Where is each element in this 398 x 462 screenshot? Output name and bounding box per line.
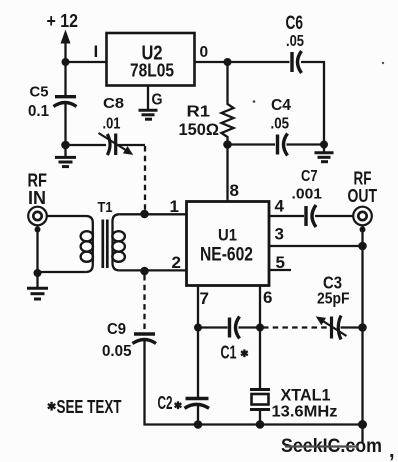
- node C junction (227,62): [224, 58, 232, 66]
- node N junction (260,424.5): [256, 420, 265, 429]
- svg-text:2: 2: [172, 253, 181, 272]
- svg-text:.01: .01: [103, 116, 121, 133]
- ground below node D: [323, 145, 325, 153]
- IC U1 NE-602 box: [187, 202, 270, 286]
- RF IN connector: [28, 207, 47, 226]
- ground below node F: [36, 273, 38, 288]
- pin 6 label: [263, 288, 272, 307]
- pin 5 stub: [269, 269, 291, 271]
- wire C5 branch down: [64, 62, 66, 95]
- wire C8 to corner: [119, 144, 146, 146]
- node H junction (144.5,271): [140, 267, 149, 276]
- pin 4 wire U1 to C7: [269, 215, 304, 217]
- wire C5 to lower junction: [64, 103, 66, 146]
- svg-text:8: 8: [230, 181, 239, 200]
- capacitor C7: [304, 206, 307, 226]
- pin 7 wire down: [197, 286, 199, 398]
- node F junction (37.5,273): [34, 269, 42, 277]
- svg-text:1: 1: [170, 197, 179, 216]
- wire C9 down to bottom rail: [145, 340, 199, 425]
- svg-text:C5: C5: [30, 84, 49, 101]
- svg-text:C4: C4: [271, 97, 291, 114]
- wire RF OUT down right rail: [361, 226, 363, 443]
- capacitor C1: [228, 318, 231, 338]
- node I junction (362.5,246): [358, 242, 367, 251]
- bottom rail wire: [198, 423, 363, 425]
- svg-text:T1: T1: [98, 199, 113, 216]
- wire C2 to bottom rail: [197, 405, 199, 425]
- pin 3 label: [275, 225, 284, 244]
- svg-text:13.6MHz: 13.6MHz: [272, 404, 338, 421]
- svg-text:5: 5: [276, 253, 285, 272]
- pin 1 label: [170, 197, 179, 216]
- svg-text:.001: .001: [292, 186, 323, 203]
- wire C6 to corner and down: [301, 62, 324, 145]
- svg-text:NE-602: NE-602: [200, 245, 253, 266]
- dashed wire node K to C3: [263, 326, 329, 328]
- node G junction (144.5,214): [140, 210, 149, 219]
- svg-text:OUT: OUT: [348, 186, 378, 206]
- wire node E to C4: [228, 143, 276, 145]
- connector pin dot: [35, 227, 41, 233]
- wire connector down to node F: [36, 226, 38, 274]
- svg-text:4: 4: [275, 197, 285, 216]
- svg-text:.05: .05: [271, 116, 290, 133]
- wire C1 to node K: [239, 326, 261, 328]
- +12 supply label: [47, 11, 79, 31]
- RF IN label: [28, 171, 48, 209]
- node K junction (260,327.5): [256, 324, 264, 332]
- svg-text:IN: IN: [28, 188, 46, 208]
- wire T1 secondary bottom to pin 2: [119, 269, 186, 271]
- pin 5 label: [276, 253, 285, 272]
- svg-text:150Ω: 150Ω: [179, 120, 220, 139]
- capacitor C5: [55, 95, 76, 98]
- connector pin dot: [360, 227, 366, 233]
- node O junction (362.5,424.5): [358, 420, 367, 429]
- ground G below U2: [139, 109, 158, 112]
- pin 4 label: [275, 197, 285, 216]
- regulator U2 box: [107, 33, 195, 86]
- svg-text:25pF: 25pF: [317, 291, 350, 308]
- crystal XTAL1: [250, 388, 270, 391]
- capacitor C6: [290, 52, 293, 72]
- wire U2 output to right corner: [195, 61, 290, 63]
- transformer T1 label: [98, 199, 113, 216]
- svg-text:I: I: [94, 42, 99, 61]
- +12 arrow: [64, 43, 66, 62]
- svg-text:,: ,: [389, 440, 395, 462]
- pin label O: [200, 44, 209, 61]
- svg-text:6: 6: [263, 288, 272, 307]
- wire junction to U2 input: [66, 61, 107, 63]
- node D junction (324,144.5): [320, 141, 328, 149]
- capacitor C9: [134, 332, 155, 335]
- T1 core: [101, 220, 104, 269]
- pin 7 label: [200, 289, 209, 308]
- wire C4 to node D: [287, 143, 325, 145]
- RF OUT connector: [353, 207, 372, 226]
- variable capacitor C8: [107, 134, 110, 155]
- variable capacitor C3: [330, 317, 333, 339]
- see text note: [48, 402, 56, 411]
- svg-text:3: 3: [275, 225, 284, 244]
- svg-text:C1: C1: [221, 343, 237, 363]
- svg-text:G: G: [152, 92, 163, 109]
- wire node J to C1: [198, 326, 228, 328]
- wire connector to T1 primary: [47, 215, 86, 217]
- svg-text:.05: .05: [286, 33, 304, 50]
- wire T1 secondary top to pin 1: [119, 213, 186, 215]
- node A junction (65,62): [62, 58, 70, 66]
- resistor R1: [222, 62, 234, 145]
- svg-text:C7: C7: [301, 168, 318, 185]
- svg-text:XTAL1: XTAL1: [281, 386, 331, 405]
- svg-text:C9: C9: [107, 321, 126, 338]
- pin 2 label: [172, 253, 181, 272]
- wire node F to T1 primary bottom: [38, 271, 86, 273]
- svg-text:7: 7: [200, 289, 209, 308]
- capacitor C4: [276, 135, 279, 155]
- pin label I: [94, 42, 99, 61]
- svg-text:C6: C6: [286, 13, 304, 34]
- node E junction (227,144.5): [223, 140, 232, 149]
- pin 3 wire: [269, 245, 363, 247]
- U2 ground stem: [147, 86, 149, 111]
- capacitor C2: [186, 397, 209, 400]
- SeekIC.com watermark: [281, 436, 382, 457]
- node L junction (362.5,327.5): [358, 323, 367, 332]
- svg-text:SEE TEXT: SEE TEXT: [57, 397, 122, 417]
- node B junction (65,145): [61, 141, 70, 150]
- svg-text:C8: C8: [103, 96, 124, 112]
- pin 6 wire down: [259, 286, 261, 389]
- node J junction (198,327.5): [194, 324, 202, 332]
- dashed wire corner down to T1 top: [144, 146, 146, 211]
- ground below node B: [64, 145, 66, 157]
- wire crystal to bottom rail: [259, 410, 261, 425]
- wire C7 to RF OUT connector: [315, 215, 353, 217]
- wire C3 to right rail: [341, 326, 363, 328]
- wire node E down to pin 8: [226, 145, 228, 202]
- svg-text:0.05: 0.05: [102, 343, 132, 360]
- T1 secondary winding: [113, 214, 120, 270]
- svg-text:78L05: 78L05: [130, 61, 174, 81]
- svg-text:C2: C2: [158, 393, 173, 413]
- wire node B to C8: [66, 144, 107, 146]
- svg-text:0: 0: [200, 44, 209, 61]
- scan speck: [382, 62, 384, 64]
- dashed wire node H down to C9: [143, 275, 145, 330]
- scan speck: [253, 100, 256, 103]
- svg-text:C3: C3: [323, 273, 342, 293]
- svg-text:R1: R1: [187, 104, 211, 121]
- node M junction (198,424.5): [194, 420, 203, 429]
- RF OUT label: [348, 169, 378, 207]
- svg-text:0.1: 0.1: [28, 103, 49, 120]
- svg-text:U1: U1: [218, 226, 237, 245]
- pin 8 label: [230, 181, 239, 200]
- T1 primary winding: [86, 216, 93, 272]
- svg-text:+ 12: + 12: [47, 11, 79, 31]
